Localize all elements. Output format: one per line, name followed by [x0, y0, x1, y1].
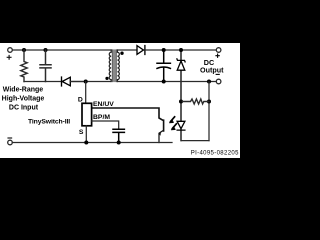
wire primary ground rail — [12, 142, 172, 144]
svg-text:PI-4095-082205: PI-4095-082205 — [191, 151, 239, 157]
svg-text:TinySwitch-III: TinySwitch-III — [28, 118, 70, 125]
node S to rail — [84, 141, 88, 145]
node output cap top — [162, 48, 166, 52]
svg-text:Output: Output — [200, 65, 224, 74]
IC TinySwitch-III U1 — [82, 103, 92, 126]
label output minus — [216, 73, 220, 75]
label DC Output — [200, 58, 224, 75]
wire BP/M pin — [92, 121, 119, 129]
resistor feedback (across opto LED) — [181, 99, 209, 104]
svg-text:High-Voltage: High-Voltage — [2, 95, 45, 102]
capacitor (clamp C) — [40, 50, 51, 82]
wire top rail — [12, 49, 111, 51]
svg-text:D: D — [78, 96, 83, 103]
svg-text:S: S — [79, 129, 84, 136]
diode (clamp, cathode left) — [62, 77, 86, 86]
node bypass cap to rail — [117, 141, 121, 145]
transformer secondary phase dot — [120, 52, 123, 55]
label Wide-Range High-Voltage DC Input — [2, 87, 45, 112]
node drain junction — [84, 80, 88, 84]
transformer T1 core — [112, 49, 117, 82]
wire D pin — [85, 82, 87, 104]
node return to feedback — [207, 80, 211, 84]
transformer secondary winding — [117, 50, 119, 82]
svg-text:EN/UV: EN/UV — [93, 101, 114, 108]
wire feedback bottom — [181, 140, 209, 142]
node feedback resistor left — [179, 100, 183, 104]
transformer primary winding — [109, 50, 111, 82]
node resistor top — [22, 48, 26, 52]
node feedback resistor right — [207, 100, 211, 104]
plus label — [7, 55, 11, 59]
transformer primary phase dot — [105, 77, 108, 80]
opto phototransistor — [92, 108, 164, 143]
capacitor bypass BP/M — [113, 129, 124, 142]
wire feedback right vertical — [208, 82, 210, 141]
wire secondary top — [118, 49, 137, 51]
output terminal + — [216, 48, 221, 53]
input terminal - — [8, 140, 13, 145]
wire to output + — [145, 49, 217, 51]
opto LED — [177, 102, 185, 141]
wire output return — [117, 81, 216, 83]
node output cap bottom — [162, 80, 166, 84]
minus label — [8, 137, 12, 139]
capacitor output electrolytic — [157, 50, 170, 82]
node zener top — [179, 48, 183, 52]
wire S pin — [85, 126, 87, 143]
label output plus — [215, 54, 219, 58]
zener diode VR1 — [177, 50, 185, 102]
opto light arrows — [169, 117, 176, 130]
wire clamp bottom — [24, 81, 61, 83]
diode output rectifier — [137, 46, 145, 55]
svg-text:DC Input: DC Input — [9, 104, 39, 111]
resistor (input clamp R) — [21, 50, 27, 82]
input terminal + — [8, 48, 13, 53]
output terminal - — [216, 79, 221, 84]
wire drain node — [70, 81, 110, 83]
node capacitor top — [44, 48, 48, 52]
svg-text:Wide-Range: Wide-Range — [3, 87, 43, 94]
svg-text:BP/M: BP/M — [93, 114, 110, 121]
